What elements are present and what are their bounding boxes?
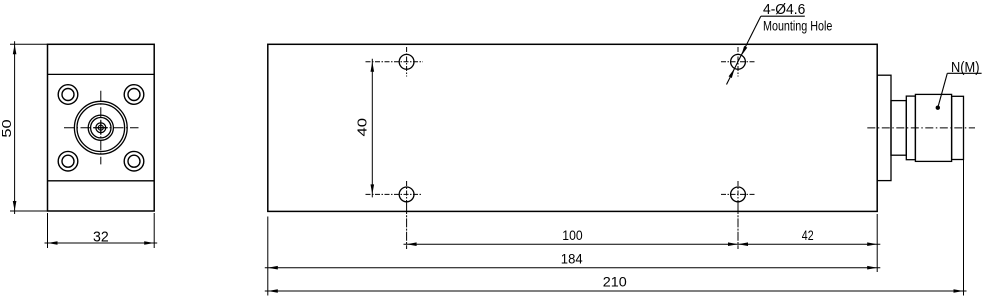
extension line body right bottom <box>876 214 878 272</box>
svg-text:210: 210 <box>603 273 627 289</box>
side view hole top-right crosshair <box>721 47 756 77</box>
dimension 100 arrow right between <box>728 242 738 246</box>
svg-text:Mounting Hole: Mounting Hole <box>763 19 832 34</box>
svg-text:184: 184 <box>561 251 583 267</box>
dimension 210 line <box>265 290 967 292</box>
svg-text:40: 40 <box>355 118 370 137</box>
N(M) label underline <box>947 72 981 74</box>
side view hole top-right circle <box>731 54 746 69</box>
front view mounting hole top-right <box>124 85 144 105</box>
front view body outline <box>48 44 155 211</box>
front view flange bottom edge <box>48 180 155 182</box>
connector face centerline vertical <box>100 91 102 165</box>
dimension 40 line <box>371 59 373 198</box>
connector face centerline horizontal <box>64 127 139 129</box>
hole bottom-left extension line <box>406 205 408 249</box>
dimension 40 arrow up <box>371 62 375 72</box>
mounting hole callout arrow lower <box>729 68 735 78</box>
side view hole bottom-left crosshair <box>366 181 423 205</box>
dimension 210 arrow left <box>268 289 278 293</box>
dimension 40 arrow down <box>371 184 375 194</box>
hole bottom-right extension line <box>737 205 739 249</box>
front view mounting hole bottom-left <box>58 151 78 171</box>
side view hole bottom-right circle <box>731 187 746 202</box>
mounting hole callout leader upper <box>727 16 761 84</box>
mounting hole callout arrow upper <box>741 46 747 56</box>
front view flange top edge <box>48 73 155 75</box>
front view mounting hole top-left <box>58 85 78 105</box>
dimension 32 arrow right <box>144 241 154 245</box>
front view mounting hole bottom-right <box>124 151 144 171</box>
connector face center pin target <box>94 121 108 135</box>
dimension 50 line <box>14 41 16 214</box>
svg-text:50: 50 <box>0 119 14 137</box>
side view connector nut body <box>915 94 951 161</box>
dimension 50 extension line bottom <box>10 210 48 212</box>
dimension 50 arrow up <box>13 44 17 54</box>
mounting hole callout underline <box>761 15 805 17</box>
dimension 42 arrow left <box>738 242 748 246</box>
dimension 42 arrow right <box>867 242 877 246</box>
extension line body left bottom <box>267 217 269 296</box>
side view hole bottom-right crosshair <box>721 181 756 205</box>
connector face outer circles <box>74 101 127 154</box>
side view connector spacer ring <box>906 96 915 160</box>
connector face middle circles <box>88 115 113 140</box>
dimension 32 extension line left <box>47 213 49 248</box>
dimension 184 arrow right <box>867 266 877 270</box>
side view connector tip <box>952 96 964 159</box>
side view body outline <box>268 44 877 211</box>
svg-text:32: 32 <box>93 229 109 245</box>
side view hole bottom-left circle <box>399 187 414 202</box>
dimension 50 arrow down <box>13 201 17 211</box>
side view connector flange <box>877 75 891 180</box>
extension line connector tip <box>963 160 965 296</box>
dimension 100 and 42 shared line <box>404 243 881 245</box>
svg-text:4-Ø4.6: 4-Ø4.6 <box>763 2 805 18</box>
svg-text:42: 42 <box>802 227 814 243</box>
connector centerline <box>867 127 975 129</box>
dimension 100 arrow left <box>407 242 417 246</box>
dimension 32 line <box>45 242 158 244</box>
N(M) leader line <box>938 73 948 107</box>
dimension 32 arrow left <box>48 241 58 245</box>
dimension 184 arrow left <box>268 266 278 270</box>
dimension 32 extension line right <box>153 213 155 248</box>
dimension 210 arrow right <box>954 289 964 293</box>
side view hole top-left circle <box>399 54 414 69</box>
side view hole top-left crosshair <box>366 47 424 77</box>
dimension 184 line <box>265 267 881 269</box>
dimension 50 extension line top <box>10 43 48 45</box>
N(M) leader dot <box>936 106 940 110</box>
side view connector neck step <box>891 101 906 156</box>
svg-text:100: 100 <box>562 227 582 243</box>
